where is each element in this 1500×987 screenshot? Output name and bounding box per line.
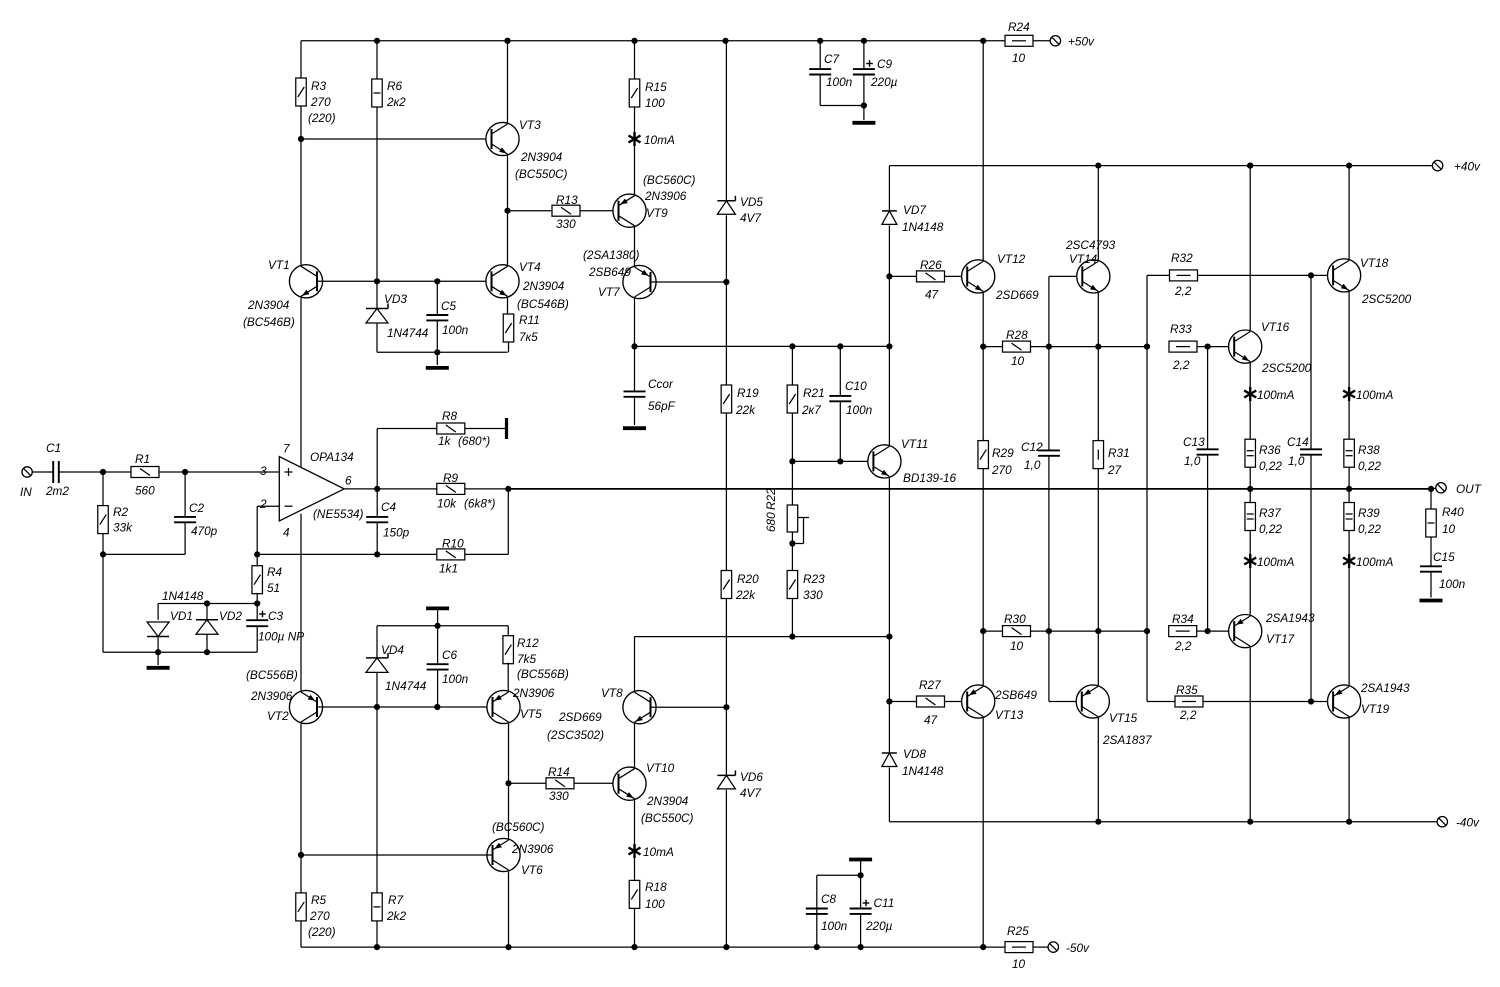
wire +50v top rail: [301, 40, 983, 42]
wire C13 down: [1207, 455, 1209, 631]
wire to VT15 base: [1049, 701, 1082, 703]
wire to VT19 base: [1311, 701, 1333, 703]
node R27: [886, 698, 892, 704]
svg-text:100n: 100n: [846, 403, 873, 417]
svg-text:2m2: 2m2: [45, 484, 69, 498]
wire VT6 emitter down: [508, 872, 510, 948]
wire to R26: [889, 275, 916, 277]
svg-text:220µ: 220µ: [870, 75, 898, 89]
wire to VT9: [634, 146, 636, 195]
svg-text:1N4148: 1N4148: [902, 764, 944, 778]
wire C7 down: [819, 75, 821, 106]
svg-text:VT10: VT10: [646, 761, 675, 775]
wire R38 down: [1348, 467, 1350, 489]
svg-text:VD6: VD6: [740, 770, 763, 784]
transistor VT4: [486, 265, 519, 298]
svg-text:R6: R6: [387, 79, 403, 93]
svg-text:0,22: 0,22: [1259, 522, 1282, 536]
svg-text:0,22: 0,22: [1358, 459, 1381, 473]
svg-text:C10: C10: [845, 379, 867, 393]
svg-text:2N3906: 2N3906: [250, 689, 293, 703]
node R32-C14: [1308, 272, 1314, 278]
svg-text:2SD669: 2SD669: [558, 710, 602, 724]
resistor R11: [503, 314, 514, 342]
wire R10 right: [465, 553, 509, 555]
wire to ground: [157, 652, 159, 665]
svg-text:2SC4793: 2SC4793: [1065, 238, 1116, 252]
wire R18 down: [634, 908, 636, 947]
wire VT8 collector rail: [635, 636, 890, 638]
wire VT19 emitter down: [1348, 718, 1350, 822]
wire R9 right: [465, 488, 509, 490]
wire VD8 to -40 rail: [888, 768, 890, 822]
capacitor C1: [53, 461, 59, 483]
resistor R28: [1003, 341, 1031, 352]
wire to C4: [376, 489, 378, 517]
wire C4 down: [376, 522, 378, 554]
node R2 bottom: [100, 551, 106, 557]
node R28 left: [980, 344, 986, 350]
node C4-R10: [374, 551, 380, 557]
wire C8 up: [816, 875, 818, 908]
svg-text:VT12: VT12: [997, 252, 1026, 266]
transistor VT14: [1077, 260, 1110, 293]
svg-text:2,2: 2,2: [1172, 358, 1190, 372]
wire down left: [102, 554, 104, 652]
svg-text:100n: 100n: [442, 672, 469, 686]
wire -50v bottom rail: [301, 946, 983, 948]
svg-text:100: 100: [645, 96, 665, 110]
svg-text:10: 10: [1012, 51, 1026, 65]
wire bar row right: [438, 625, 509, 627]
wire VT13 bottom: [982, 718, 984, 947]
svg-text:BD139-16: BD139-16: [903, 471, 957, 485]
svg-text:VT5: VT5: [520, 707, 542, 721]
resistor R10: [437, 549, 465, 560]
wire to R13: [508, 210, 553, 212]
svg-text:270: 270: [309, 909, 330, 923]
wire R12 to VT5: [507, 663, 509, 691]
op-amp U1 OPA134: [279, 457, 344, 521]
diode VD1: [147, 622, 169, 637]
svg-text:C5: C5: [441, 299, 457, 313]
node VT6 bottom: [505, 944, 511, 950]
node R4-C3: [254, 600, 260, 606]
svg-text:R25: R25: [1007, 924, 1029, 938]
node VT11 base: [789, 458, 795, 464]
svg-text:51: 51: [267, 581, 280, 595]
wire C5 down: [436, 320, 438, 352]
node C9: [861, 38, 867, 44]
wire op-amp output: [344, 488, 377, 490]
wire down to rail: [888, 276, 890, 346]
svg-text:2к7: 2к7: [801, 403, 821, 417]
svg-text:2N3904: 2N3904: [522, 279, 565, 293]
svg-text:C15: C15: [1433, 550, 1455, 564]
svg-text:VD1: VD1: [170, 609, 193, 623]
resistor R30: [1003, 626, 1031, 637]
svg-text:(680*): (680*): [458, 434, 490, 448]
node VT6 base: [298, 852, 304, 858]
wire pin2 stub h: [257, 505, 279, 507]
svg-text:(NE5534): (NE5534): [313, 507, 364, 521]
svg-text:VT6: VT6: [521, 863, 543, 877]
wire R3 to node: [300, 106, 302, 139]
svg-text:C8: C8: [821, 892, 837, 906]
svg-text:22k: 22k: [735, 403, 756, 417]
wire VAS rail: [635, 345, 890, 347]
current mark 10mA upper: [629, 132, 641, 146]
svg-text:R19: R19: [737, 386, 759, 400]
svg-text:R36: R36: [1259, 443, 1281, 457]
wire VT7 emitter: [634, 298, 636, 346]
node after C1: [100, 469, 106, 475]
resistor R23: [787, 571, 798, 599]
svg-text:1,0: 1,0: [1288, 454, 1305, 468]
wire R31 down: [1097, 469, 1099, 631]
wire R30 right: [1031, 630, 1049, 632]
wire top rail to R24: [983, 40, 1005, 42]
wire R5 down: [300, 921, 302, 947]
node C5 top: [434, 278, 440, 284]
svg-text:4: 4: [283, 526, 290, 540]
wire to VT3 base: [301, 138, 492, 140]
svg-text:-50v: -50v: [1066, 941, 1090, 955]
transistor VT13: [962, 685, 995, 718]
wire R7 down: [376, 921, 378, 947]
wire to R40: [1430, 489, 1432, 509]
wire VT1 emitter to pin 7: [300, 298, 302, 467]
wire pin 4 to VT2: [300, 514, 302, 691]
node VT7 emitter: [631, 343, 637, 349]
svg-text:R23: R23: [803, 572, 825, 586]
svg-text:+40v: +40v: [1454, 159, 1481, 173]
node VT17 -40: [1247, 819, 1253, 825]
svg-text:R4: R4: [267, 565, 283, 579]
wire to R39: [1348, 489, 1350, 503]
transistor VT10: [613, 767, 646, 800]
wire to R15: [634, 41, 636, 79]
resistor R26: [917, 271, 945, 282]
svg-text:2N3906: 2N3906: [512, 686, 555, 700]
terminal +40v: [1432, 160, 1442, 170]
capacitor C9: [853, 69, 875, 74]
node C6 top: [435, 623, 441, 629]
svg-text:2SD669: 2SD669: [995, 288, 1039, 302]
transistor VT11: [868, 445, 901, 478]
svg-text:(BC546B): (BC546B): [517, 297, 569, 311]
svg-text:33k: 33k: [113, 521, 133, 535]
ground at C15: [1420, 599, 1443, 603]
wire VD3 down: [376, 323, 378, 352]
svg-text:(BC550C): (BC550C): [515, 167, 568, 181]
wire to R9: [377, 488, 437, 490]
wire VT14 collector: [1097, 166, 1099, 260]
svg-text:C4: C4: [381, 500, 397, 514]
svg-text:(2SC3502): (2SC3502): [547, 728, 604, 742]
zener VD3: [366, 304, 388, 324]
ground at Ccor: [623, 426, 646, 430]
diode VD7: [882, 211, 897, 225]
wire VT13 top: [982, 631, 984, 685]
resistor R27: [917, 696, 945, 707]
wire to VT6: [508, 783, 510, 838]
svg-text:R28: R28: [1006, 328, 1028, 342]
svg-text:7: 7: [283, 442, 290, 456]
resistor R7: [372, 893, 383, 921]
terminal -40v: [1437, 817, 1447, 827]
transistor VT18: [1328, 259, 1361, 292]
wire C7-C9 join: [820, 105, 864, 107]
svg-text:6: 6: [345, 474, 352, 488]
svg-text:(6k8*): (6k8*): [464, 497, 496, 511]
svg-text:+50v: +50v: [1068, 35, 1095, 49]
wire to C14: [1310, 275, 1312, 449]
node +40 VT14: [1095, 163, 1101, 169]
svg-text:VT17: VT17: [1266, 632, 1295, 646]
node VT11 collector: [886, 343, 892, 349]
node VD5 top: [722, 38, 728, 44]
svg-text:Ccor: Ccor: [648, 377, 674, 391]
wire R19 to R20: [725, 413, 727, 571]
wire to C5: [436, 281, 438, 315]
svg-text:VT11: VT11: [901, 437, 928, 451]
node VD2 top: [204, 600, 210, 606]
svg-text:R20: R20: [737, 572, 759, 586]
node VD1 gnd: [155, 649, 161, 655]
wire to VD8: [888, 702, 890, 754]
svg-text:R15: R15: [645, 80, 667, 94]
wire VT1 base row: [317, 280, 492, 282]
svg-text:330: 330: [549, 789, 569, 803]
svg-text:C11: C11: [874, 896, 895, 910]
wire to C10: [839, 346, 841, 395]
wire +40v rail: [889, 165, 1432, 167]
node pin2 feedback: [254, 551, 260, 557]
svg-text:VT9: VT9: [646, 206, 668, 220]
svg-text:10mA: 10mA: [644, 133, 675, 147]
wire R34 right: [1197, 630, 1208, 632]
wire to R21: [791, 346, 793, 385]
svg-text:(2SA1380): (2SA1380): [583, 248, 639, 262]
wire R20 down: [725, 599, 727, 708]
wire to R4: [256, 554, 258, 566]
svg-text:R18: R18: [645, 880, 667, 894]
svg-text:R1: R1: [135, 452, 150, 466]
capacitor C10: [829, 396, 851, 401]
wire to R27 node: [888, 637, 890, 702]
terminal IN: [22, 467, 32, 477]
svg-text:R26: R26: [920, 258, 942, 272]
svg-text:C6: C6: [442, 648, 458, 662]
current mark 100mA 1: [1244, 387, 1256, 401]
wire IN to C1: [32, 471, 53, 473]
svg-text:1N4744: 1N4744: [387, 326, 429, 340]
svg-text:(BC546B): (BC546B): [243, 315, 295, 329]
svg-text:100n: 100n: [1439, 577, 1466, 591]
svg-text:VD8: VD8: [903, 747, 926, 761]
node C14 bottom: [1308, 698, 1314, 704]
zener VD6: [717, 770, 735, 789]
node VD2 bottom: [204, 649, 210, 655]
capacitor C13: [1197, 449, 1219, 454]
wire C14 down: [1310, 455, 1312, 702]
wire R8 to stub: [465, 428, 506, 430]
wire to VD3: [376, 281, 378, 308]
svg-text:2,2: 2,2: [1174, 639, 1192, 653]
svg-text:2SA1943: 2SA1943: [1360, 681, 1410, 695]
terminal OUT: [1436, 483, 1446, 493]
resistor R14: [546, 778, 574, 789]
svg-text:3: 3: [260, 464, 267, 478]
svg-text:560: 560: [135, 484, 155, 498]
resistor R2: [98, 506, 109, 534]
wire to R8: [377, 428, 437, 430]
resistor R9: [437, 483, 465, 494]
svg-text:0,22: 0,22: [1358, 522, 1381, 536]
node C6 bottom: [434, 704, 440, 710]
wire C3 bottom: [256, 626, 258, 652]
svg-text:VT18: VT18: [1360, 256, 1389, 270]
wire VT8 base: [651, 706, 727, 708]
resistor R5: [296, 893, 307, 921]
svg-text:(220): (220): [308, 925, 336, 939]
node VT15 top: [1095, 628, 1101, 634]
wire to Ccor: [634, 346, 636, 391]
node C13 bottom: [1205, 628, 1211, 634]
svg-text:2SA1837: 2SA1837: [1102, 733, 1152, 747]
open stub terminator: [505, 418, 508, 439]
svg-text:150p: 150p: [383, 526, 410, 540]
node +40 VT16: [1247, 163, 1253, 169]
svg-text:VT15: VT15: [1109, 711, 1138, 725]
wire R26 to VT12 base: [945, 275, 968, 277]
wire bar row left: [377, 625, 438, 627]
wire C11 down: [860, 914, 862, 947]
wire to VT17: [1249, 568, 1251, 615]
svg-text:2N3904: 2N3904: [520, 150, 563, 164]
svg-text:270: 270: [310, 95, 331, 109]
wire C15 down: [1430, 572, 1432, 598]
node C12 top: [1046, 344, 1052, 350]
wire pin2 stub v: [256, 506, 258, 554]
wire VT15 bottom: [1097, 718, 1099, 822]
svg-text:(BC560C): (BC560C): [643, 173, 696, 187]
svg-text:1N4148: 1N4148: [902, 220, 944, 234]
node R14: [505, 780, 511, 786]
svg-text:R40: R40: [1442, 505, 1464, 519]
svg-text:VT13: VT13: [995, 708, 1024, 722]
wire to ground: [436, 352, 438, 365]
svg-text:C14: C14: [1287, 435, 1309, 449]
wire C12 col up: [1048, 276, 1050, 346]
resistor R20: [721, 571, 732, 599]
wire to VT17 base: [1208, 630, 1235, 632]
svg-text:(BC560C): (BC560C): [492, 820, 545, 834]
svg-text:C3: C3: [268, 609, 284, 623]
wire to C7: [819, 41, 821, 69]
svg-text:R33: R33: [1170, 322, 1192, 336]
svg-text:OPA134: OPA134: [310, 450, 354, 464]
wire bottom rail to R25: [983, 946, 1005, 948]
wire to R31: [1097, 347, 1099, 441]
wire to op-amp pin 3: [185, 471, 279, 473]
wire to ground: [863, 106, 865, 121]
wire to C6: [437, 626, 439, 664]
wire VD4 node to R7: [376, 707, 378, 893]
svg-text:R13: R13: [556, 193, 578, 207]
wire to R22: [791, 461, 793, 505]
wire VT18 collector: [1348, 166, 1350, 260]
wire C10 down: [839, 402, 841, 462]
capacitor C7: [809, 69, 831, 74]
wire C8-C11 join: [817, 874, 861, 876]
svg-text:VT16: VT16: [1261, 320, 1290, 334]
node R34 left: [1144, 628, 1150, 634]
svg-text:2: 2: [259, 497, 267, 511]
wire C11 mid: [860, 875, 862, 908]
resistor R8: [437, 423, 465, 434]
transistor VT17: [1229, 615, 1262, 648]
svg-text:10: 10: [1012, 957, 1026, 971]
svg-text:R12: R12: [517, 636, 539, 650]
node C9 gnd: [861, 102, 867, 108]
svg-text:C2: C2: [189, 501, 205, 515]
wire R10 up to node: [507, 489, 509, 555]
node C7: [817, 38, 823, 44]
svg-text:R34: R34: [1172, 612, 1194, 626]
wire VT12 collector: [982, 41, 984, 260]
wire VD1 top: [157, 604, 159, 620]
wire to R38: [1348, 401, 1350, 440]
wire VT11 emitter down: [888, 478, 890, 637]
wire to R1: [103, 471, 131, 473]
wire to VD6: [725, 707, 727, 775]
svg-text:VD2: VD2: [219, 609, 242, 623]
svg-text:R24: R24: [1008, 20, 1030, 34]
wire -40v rail: [889, 821, 1437, 823]
wire R29 down: [982, 469, 984, 631]
svg-text:2SC5200: 2SC5200: [1361, 292, 1412, 306]
resistor R3: [296, 78, 307, 106]
node R26: [886, 273, 892, 279]
wire R24 to +50v terminal: [1033, 40, 1050, 42]
resistor R21: [787, 385, 798, 413]
node VT3 top: [504, 38, 510, 44]
supply bar above C11: [849, 858, 872, 862]
diode VD2: [196, 620, 218, 635]
capacitor C6: [427, 664, 449, 669]
wire to VT15 base corner: [1048, 631, 1050, 701]
wire +40 corner down: [888, 166, 890, 211]
svg-text:10: 10: [1442, 522, 1456, 536]
wire VT4 emitter: [507, 298, 509, 315]
wire to VT11 base: [792, 460, 873, 462]
transistor VT15: [1076, 685, 1109, 718]
wire VD5 down: [725, 215, 727, 282]
node C10 top: [837, 343, 843, 349]
resistor R12: [503, 636, 514, 664]
svg-text:2SC5200: 2SC5200: [1261, 361, 1312, 375]
svg-text:22k: 22k: [735, 588, 756, 602]
svg-text:1N4744: 1N4744: [385, 679, 427, 693]
wire VD4 down: [376, 672, 378, 707]
node +50 R24: [980, 38, 986, 44]
resistor R34: [1169, 626, 1197, 637]
svg-text:100n: 100n: [826, 75, 853, 89]
wire C9 down: [863, 75, 865, 106]
wire VT9 to VT7: [634, 227, 636, 266]
